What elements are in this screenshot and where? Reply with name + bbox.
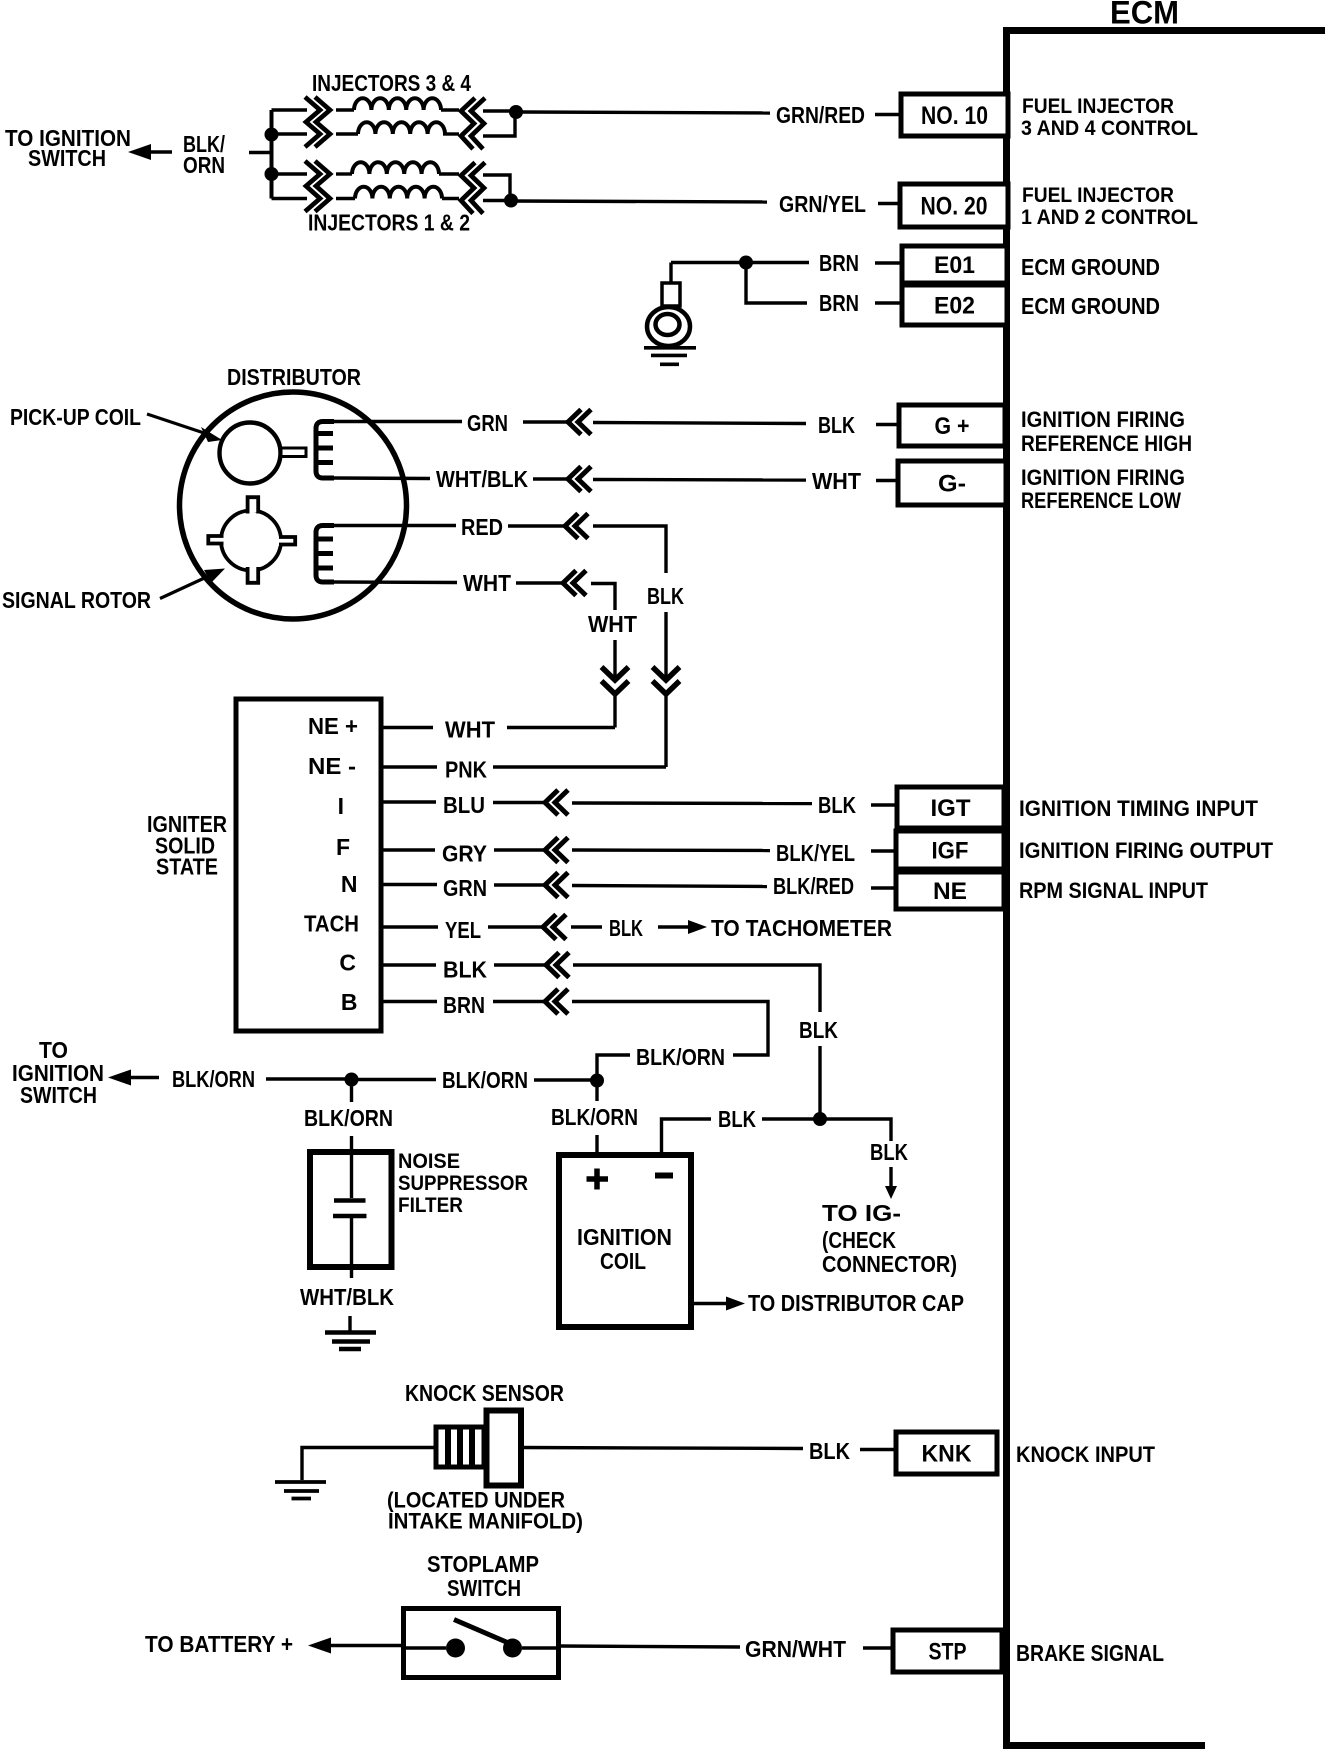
node junction dot on bus (injector 1&2 upper wire): [265, 167, 279, 181]
node junction dot on bus (injector 3&4 lower wire): [265, 128, 279, 142]
label IGNITER SOLID STATE: [147, 811, 227, 880]
svg-text:F: F: [336, 834, 350, 860]
svg-text:ORN: ORN: [183, 152, 225, 178]
stoplamp switch box: [404, 1609, 559, 1678]
wire arrow TO BATTERY +: [308, 1638, 404, 1654]
svg-text:FUEL INJECTOR: FUEL INJECTOR: [1022, 184, 1174, 207]
svg-text:NO. 10: NO. 10: [921, 102, 988, 130]
wire WHT down from connector: [591, 584, 615, 611]
signal rotor symbol: [208, 494, 295, 586]
label STOPLAMP SWITCH: [427, 1551, 539, 1601]
ground symbol (knock sensor): [275, 1482, 326, 1499]
wire WHT/BLK from pick-up coil: [334, 476, 430, 480]
wire I stub: [381, 800, 436, 803]
svg-text:RED: RED: [461, 514, 503, 540]
wire BLK to check connector corner: [826, 1119, 891, 1141]
pin N label: [341, 871, 358, 897]
wire N stub: [381, 883, 437, 886]
svg-text:INJECTORS 1 & 2: INJECTORS 1 & 2: [308, 210, 470, 236]
svg-text:BLK: BLK: [870, 1139, 908, 1165]
label (LOCATED UNDER INTAKE MANIFOLD): [387, 1488, 583, 1534]
svg-text:NE +: NE +: [308, 713, 358, 739]
capacitor C1 (noise filter): [333, 1152, 367, 1278]
ECM title label: [1110, 0, 1179, 31]
svg-text:ECM GROUND: ECM GROUND: [1021, 254, 1160, 280]
label BLK/ORN (trunk middle): [442, 1067, 528, 1093]
arrow down to IG-: [885, 1167, 897, 1199]
label INJECTORS 1 & 2: [308, 210, 470, 236]
wire stub into NE: [871, 886, 896, 889]
wire WHT vertical to NE+: [613, 694, 616, 728]
wire BLK to tachometer: [571, 925, 602, 928]
label BLK (C vertical): [799, 1017, 838, 1043]
svg-text:BLK: BLK: [809, 1438, 850, 1464]
label BLK (G+): [818, 412, 855, 438]
svg-text:BLK: BLK: [799, 1017, 838, 1043]
wire BLK down from RED connector: [593, 526, 666, 573]
ignition coil box: [559, 1155, 691, 1327]
wire injector 3&4 lower left segment: [272, 132, 308, 135]
wire GRN/WHT to ECM STP: [559, 1646, 741, 1647]
svg-text:NOISE: NOISE: [398, 1150, 460, 1173]
wire BLU to connector: [493, 801, 545, 804]
node junction dot injectors 1&2 output: [504, 194, 518, 208]
ECM pin box E02: [902, 285, 1007, 325]
wire noise filter feed upper: [350, 1080, 353, 1103]
wire RED to connector: [508, 524, 565, 527]
wire BLK vertical to junction dot: [818, 1046, 821, 1119]
wire knock sensor to ground: [302, 1448, 436, 1481]
svg-text:TO IG-: TO IG-: [822, 1200, 901, 1226]
wire ignition coil + feed lower: [595, 1135, 598, 1155]
wire YEL to connector: [488, 925, 543, 928]
label BLK (tach): [609, 915, 643, 941]
label KNOCK INPUT: [1016, 1442, 1156, 1467]
svg-text:YEL: YEL: [445, 917, 481, 943]
wire NE+ stub: [381, 726, 433, 729]
wire BLK from coil - terminal: [662, 1119, 712, 1155]
label NOISE SUPPRESSOR FILTER: [398, 1150, 528, 1217]
svg-text:TO TACHOMETER: TO TACHOMETER: [711, 915, 892, 941]
svg-text:G +: G +: [935, 413, 970, 440]
wire BLK vertical to NE-: [664, 694, 667, 767]
wire WHT from rotor pickup: [334, 580, 457, 584]
wire BLK to ECM KNK: [521, 1448, 803, 1449]
wire BLK vertical segment: [664, 612, 667, 678]
connector chevron B: [545, 989, 568, 1014]
label RPM SIGNAL INPUT: [1019, 878, 1209, 903]
svg-text:COIL: COIL: [600, 1248, 646, 1274]
ECM box top edge: [1006, 27, 1325, 34]
label INJECTORS 3 & 4: [312, 70, 471, 96]
svg-text:KNOCK SENSOR: KNOCK SENSOR: [405, 1380, 564, 1406]
svg-text:NO. 20: NO. 20: [921, 193, 988, 221]
label ECM GROUND (E02): [1021, 293, 1160, 319]
svg-text:INTAKE MANIFOLD): INTAKE MANIFOLD): [388, 1509, 583, 1534]
svg-text:WHT/BLK: WHT/BLK: [436, 466, 528, 492]
svg-text:(CHECK: (CHECK: [822, 1227, 896, 1253]
wire TACH stub: [381, 925, 438, 928]
svg-text:GRY: GRY: [442, 841, 487, 867]
svg-text:BLK: BLK: [647, 583, 684, 609]
label BRN (E02): [819, 290, 859, 316]
label IGNITION COIL: [577, 1224, 672, 1274]
wire injector 1&2 lower left segment: [272, 197, 308, 200]
svg-text:ECM GROUND: ECM GROUND: [1021, 293, 1160, 319]
wire stub into G-: [876, 479, 898, 482]
svg-text:BLK: BLK: [818, 412, 855, 438]
svg-text:BLK: BLK: [609, 915, 643, 941]
wire GRY to connector: [494, 848, 545, 851]
wire BRN E01 from bolt: [671, 261, 809, 264]
wire WHT to vertical: [507, 726, 615, 729]
svg-text:BLK/YEL: BLK/YEL: [776, 840, 855, 866]
svg-text:BLK/ORN: BLK/ORN: [551, 1104, 638, 1130]
label IGNITION FIRING OUTPUT: [1019, 838, 1274, 863]
wire stub into STP: [863, 1646, 893, 1649]
svg-text:PNK: PNK: [445, 757, 487, 783]
svg-text:FUEL INJECTOR: FUEL INJECTOR: [1022, 95, 1174, 118]
pin F label: [336, 834, 350, 860]
svg-text:BLU: BLU: [443, 792, 485, 818]
label FUEL INJECTOR 3 AND 4 CONTROL: [1021, 95, 1198, 140]
connector chevron WHT/BLK: [568, 467, 591, 492]
arrow to tachometer: [658, 920, 707, 934]
svg-text:BLK/ORN: BLK/ORN: [172, 1066, 255, 1092]
connector chevron IGF: [545, 838, 568, 863]
ECM box left edge: [1003, 27, 1010, 1747]
svg-text:IGNITION TIMING INPUT: IGNITION TIMING INPUT: [1019, 796, 1259, 821]
terminal - label: [655, 1173, 673, 1179]
wire trunk segment 2: [358, 1078, 436, 1081]
label TO IGNITION SWITCH (top): [5, 125, 131, 171]
wire BLK from C to ignition coil junction: [573, 965, 820, 1012]
svg-text:IGNITION FIRING: IGNITION FIRING: [1021, 465, 1185, 490]
svg-text:IGNITION FIRING OUTPUT: IGNITION FIRING OUTPUT: [1019, 838, 1274, 863]
label BLK (check connector): [870, 1139, 908, 1165]
svg-text:SWITCH: SWITCH: [20, 1082, 97, 1108]
svg-text:WHT/BLK: WHT/BLK: [300, 1284, 394, 1310]
wire WHT to connector: [516, 581, 563, 584]
svg-text:STP: STP: [929, 1639, 967, 1666]
wire ignition coil + feed upper: [595, 1081, 598, 1102]
label FUEL INJECTOR 1 AND 2 CONTROL: [1021, 184, 1198, 229]
terminal + label: [587, 1169, 609, 1190]
svg-text:BLK: BLK: [818, 792, 856, 818]
label BLK (vertical): [647, 583, 684, 609]
label ECM GROUND (E01): [1021, 254, 1160, 280]
svg-text:ECM: ECM: [1110, 0, 1179, 31]
label PNK: [445, 757, 487, 783]
svg-text:BLK/ORN: BLK/ORN: [304, 1105, 393, 1131]
connector left of injectors 1 & 2: [305, 161, 330, 212]
label SIGNAL ROTOR: [2, 587, 151, 613]
connector chevron WHT down: [602, 667, 629, 694]
wire BRN E02 branch: [746, 263, 807, 304]
injector coil L1 (injector 3): [336, 98, 459, 110]
label WHT/BLK (noise filter): [300, 1284, 394, 1310]
wire BLK/ORN into trunk junction: [597, 1055, 630, 1079]
wire BLK/ORN stub to injector bus: [249, 151, 272, 154]
label BLK (coil -): [718, 1106, 756, 1132]
ECM pin box IGT: [897, 787, 1004, 828]
label TO IGNITION SWITCH (lower): [12, 1037, 104, 1108]
pick-up coil winding core (upper): [316, 422, 334, 479]
wire NE- stub: [381, 765, 437, 768]
svg-text:NE -: NE -: [308, 753, 356, 779]
label BLK (IGT): [818, 792, 856, 818]
wire BLK/RED to ECM NE: [572, 886, 767, 887]
node junction dot injectors 3&4 output: [509, 105, 523, 119]
arrow TO DISTRIBUTOR CAP: [691, 1297, 745, 1311]
label TO IG- (CHECK CONNECTOR): [822, 1200, 957, 1277]
svg-text:TO DISTRIBUTOR CAP: TO DISTRIBUTOR CAP: [748, 1290, 964, 1316]
pick-up coil circle: [220, 423, 281, 484]
wire stub into E01: [875, 261, 901, 264]
svg-text:BRN: BRN: [443, 992, 485, 1018]
svg-text:GRN/YEL: GRN/YEL: [779, 191, 866, 217]
connector left of injectors 3 & 4: [305, 97, 330, 147]
svg-text:KNOCK INPUT: KNOCK INPUT: [1016, 1442, 1156, 1467]
connector chevron GRN: [568, 410, 591, 435]
svg-text:C: C: [339, 950, 356, 976]
svg-text:BLK/RED: BLK/RED: [773, 873, 854, 899]
label BLK/ORN (B wire): [636, 1044, 725, 1070]
label YEL: [445, 917, 481, 943]
svg-text:BRN: BRN: [819, 250, 859, 276]
wire injector 1&2 right joining segment: [483, 175, 510, 200]
svg-text:BRN: BRN: [819, 290, 859, 316]
pointer line to signal rotor: [160, 569, 225, 599]
connector chevron BLK down: [653, 667, 680, 694]
wire stub into IGF: [871, 849, 896, 852]
label IGNITION FIRING REFERENCE HIGH: [1021, 407, 1192, 456]
connector chevron C: [546, 953, 569, 978]
svg-text:WHT: WHT: [445, 717, 495, 743]
wire arrow to ignition switch (lower): [108, 1070, 159, 1086]
svg-text:1 AND 2 CONTROL: 1 AND 2 CONTROL: [1021, 206, 1198, 229]
switch S1 contacts and blade: [404, 1620, 559, 1658]
wire BLK to junction dot: [762, 1117, 814, 1120]
label KNOCK SENSOR: [405, 1380, 564, 1406]
wire injector 3&4 right joining segment: [483, 112, 515, 136]
wire GRN/YEL to ECM NO.20: [483, 201, 767, 203]
wire TO IGNITION SWITCH arrow (top): [128, 144, 172, 160]
label WHT (rotor): [463, 570, 511, 596]
ECM pin box NE: [896, 872, 1004, 909]
svg-text:GRN/RED: GRN/RED: [776, 102, 865, 128]
label TO TACHOMETER: [711, 915, 892, 941]
pin C label: [339, 950, 356, 976]
svg-text:BLK/ORN: BLK/ORN: [636, 1044, 725, 1070]
connector chevron RED: [565, 514, 588, 539]
wire C to connector: [494, 963, 546, 966]
node BLK junction dot: [813, 1112, 827, 1126]
ECM pin box E01: [902, 246, 1007, 283]
svg-text:CONNECTOR): CONNECTOR): [822, 1251, 957, 1277]
injector coil L2 (injector 4): [336, 122, 459, 134]
svg-text:NE: NE: [933, 878, 967, 905]
svg-text:I: I: [338, 793, 344, 819]
ground symbol (noise filter): [325, 1316, 376, 1349]
ECM pin box IGF: [896, 831, 1004, 869]
wire PNK to vertical: [493, 765, 666, 768]
svg-text:KNK: KNK: [922, 1441, 973, 1468]
wire BLK to ECM IGT: [572, 801, 812, 805]
wire injector 1&2 upper left segment: [272, 172, 308, 175]
svg-text:B: B: [341, 989, 358, 1015]
svg-text:RPM SIGNAL INPUT: RPM SIGNAL INPUT: [1019, 878, 1209, 903]
label DISTRIBUTOR: [227, 364, 361, 390]
wire BLK to ECM G+: [593, 423, 806, 424]
pin NE- label: [308, 753, 356, 779]
svg-text:E01: E01: [934, 252, 975, 279]
svg-text:E02: E02: [934, 293, 975, 320]
svg-text:WHT: WHT: [463, 570, 511, 596]
wire WHT to ECM G-: [593, 478, 806, 482]
svg-text:IGNITION FIRING: IGNITION FIRING: [1021, 407, 1185, 432]
wire noise filter feed lower: [350, 1136, 353, 1152]
label WHT (vertical): [588, 611, 637, 637]
wire BLK/ORN from B pin: [572, 1002, 768, 1056]
connector chevron TACH: [543, 915, 566, 940]
connector chevron WHT: [563, 571, 586, 596]
wire C stub: [381, 963, 436, 966]
label WHT (G-): [812, 468, 861, 494]
label IGNITION FIRING REFERENCE LOW: [1021, 465, 1185, 513]
knock sensor body (hex): [487, 1411, 522, 1486]
connector right of injectors 1 & 2: [461, 163, 485, 214]
svg-text:GRN: GRN: [467, 410, 508, 436]
svg-text:REFERENCE LOW: REFERENCE LOW: [1021, 488, 1181, 513]
wire WHT/BLK to connector: [533, 477, 568, 480]
svg-text:N: N: [341, 871, 358, 897]
wire BLK/YEL to ECM IGF: [572, 848, 770, 852]
svg-text:INJECTORS 3 & 4: INJECTORS 3 & 4: [312, 70, 471, 96]
svg-text:BLK: BLK: [443, 957, 487, 983]
label BLK/RED: [773, 873, 854, 899]
wire F stub: [381, 848, 435, 851]
svg-text:GRN/WHT: GRN/WHT: [745, 1636, 846, 1662]
ground bolt symbol: [647, 263, 690, 347]
pin I label: [338, 793, 344, 819]
label BRAKE SIGNAL: [1016, 1640, 1164, 1666]
svg-text:TO BATTERY +: TO BATTERY +: [145, 1631, 293, 1657]
node trunk junction dot 1: [345, 1073, 359, 1087]
label BLK/ORN (top left): [183, 131, 225, 178]
label BRN (B pin): [443, 992, 485, 1018]
pick-up coil stub: [281, 448, 306, 457]
svg-text:SWITCH: SWITCH: [28, 145, 106, 171]
label TO DISTRIBUTOR CAP: [748, 1290, 964, 1316]
svg-text:FILTER: FILTER: [398, 1194, 463, 1217]
svg-text:IGNITION: IGNITION: [577, 1224, 672, 1250]
label BLK/ORN (above noise filter): [304, 1105, 393, 1131]
label WHT/BLK (distributor): [436, 466, 528, 492]
wire RED from rotor pickup: [334, 524, 456, 527]
wire injector left bus vertical: [270, 110, 274, 199]
wire WHT vertical segment: [613, 640, 616, 678]
svg-text:SUPPRESSOR: SUPPRESSOR: [398, 1172, 528, 1195]
svg-text:3 AND 4 CONTROL: 3 AND 4 CONTROL: [1021, 117, 1198, 140]
pin TACH label: [304, 911, 359, 937]
svg-text:BRAKE SIGNAL: BRAKE SIGNAL: [1016, 1640, 1164, 1666]
label GRN/WHT: [745, 1636, 846, 1662]
wire stub into NO.10: [875, 113, 900, 116]
pin B label: [341, 989, 358, 1015]
label BLK/YEL: [776, 840, 855, 866]
svg-text:IGT: IGT: [931, 795, 971, 822]
injector coil L3 (injector 1): [336, 162, 459, 174]
svg-text:PICK-UP COIL: PICK-UP COIL: [10, 404, 141, 430]
knock sensor body (threads): [436, 1427, 484, 1467]
svg-text:G-: G-: [938, 471, 966, 498]
svg-text:TACH: TACH: [304, 911, 359, 937]
node trunk junction dot 2: [590, 1074, 604, 1088]
wire trunk segment 3: [534, 1078, 591, 1081]
label BLU: [443, 792, 485, 818]
svg-text:SIGNAL ROTOR: SIGNAL ROTOR: [2, 587, 151, 613]
wire stub into IGT: [871, 803, 897, 806]
wire GRN/RED to ECM NO.10: [483, 111, 770, 113]
ECM pin box NO. 20: [900, 184, 1008, 227]
label BLK/ORN (above ignition coil): [551, 1104, 638, 1130]
node junction dot BRN: [739, 256, 753, 270]
pointer line to pick-up coil: [147, 414, 222, 442]
label BLK/ORN (trunk left): [172, 1066, 255, 1092]
wire GRN to connector: [494, 883, 545, 886]
label IGNITION TIMING INPUT: [1019, 796, 1259, 821]
wire trunk segment 1: [266, 1077, 345, 1080]
ECM pin box STP: [893, 1630, 1002, 1672]
ECM pin box G-: [898, 461, 1006, 505]
wire stub into NO.20: [878, 202, 900, 205]
svg-text:WHT: WHT: [812, 468, 861, 494]
svg-text:IGF: IGF: [932, 838, 969, 865]
connector chevron IGT: [545, 790, 568, 815]
svg-text:STATE: STATE: [156, 854, 218, 880]
ECM pin box KNK: [896, 1432, 997, 1474]
noise suppressor filter box: [310, 1152, 392, 1267]
svg-text:WHT: WHT: [588, 611, 637, 637]
label RED: [461, 514, 503, 540]
wire injector 3&4 upper left segment: [272, 108, 308, 111]
connector right of injectors 3 & 4: [461, 98, 485, 149]
distributor housing circle: [180, 392, 407, 619]
ECM pin box G+: [899, 405, 1005, 446]
ECM box bottom edge: [1003, 1742, 1205, 1749]
label PICK-UP COIL: [10, 404, 141, 430]
label GRN (igniter): [443, 875, 487, 901]
svg-text:STOPLAMP: STOPLAMP: [427, 1551, 539, 1577]
wire stub into E02: [875, 301, 901, 304]
wire B to connector: [493, 1000, 545, 1003]
svg-text:BLK: BLK: [718, 1106, 756, 1132]
svg-text:BLK/ORN: BLK/ORN: [442, 1067, 528, 1093]
svg-text:GRN: GRN: [443, 875, 487, 901]
ECM pin box NO. 10: [901, 94, 1008, 136]
wire GRN from pick-up coil: [334, 420, 462, 423]
wire stub into G+: [876, 423, 899, 426]
signal rotor winding core (lower): [316, 526, 334, 583]
label BRN (E01): [819, 250, 859, 276]
label GRN (distributor): [467, 410, 508, 436]
label BLK (knock): [809, 1438, 850, 1464]
pin NE+ label: [308, 713, 358, 739]
label BLK (C pin): [443, 957, 487, 983]
label WHT (NE+): [445, 717, 495, 743]
svg-text:REFERENCE HIGH: REFERENCE HIGH: [1021, 431, 1192, 456]
